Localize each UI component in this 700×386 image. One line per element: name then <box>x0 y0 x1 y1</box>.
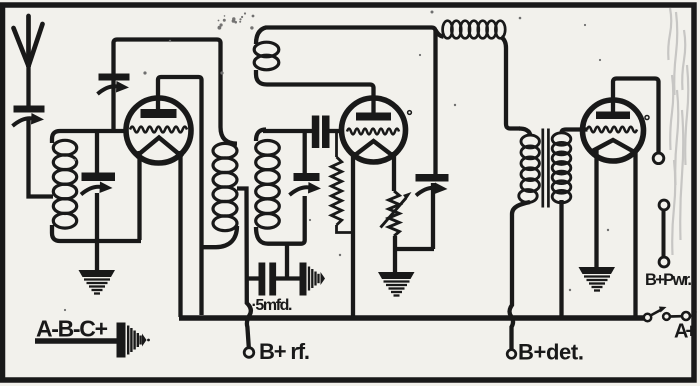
wire V3 left filament leg <box>594 149 598 267</box>
terminal B+Pwr top <box>659 200 669 210</box>
wire coilB bottom to C4 lead <box>285 244 289 279</box>
wire V1 plate to primary feed <box>158 77 202 315</box>
antenna <box>14 16 43 66</box>
wire secondary bottom to bus <box>559 200 563 317</box>
wire choke to transformer primary <box>501 37 520 129</box>
terminal B+Pwr bottom <box>659 257 669 267</box>
wire V2 plate to tickler <box>256 70 374 113</box>
hatched arrow to common <box>300 263 307 296</box>
wire grid lead tank top <box>52 131 127 143</box>
ground G3 <box>579 267 616 274</box>
wire rheostat to ground <box>393 236 397 272</box>
svg-text:A-B-C+: A-B-C+ <box>36 316 108 342</box>
wire tank bottom <box>52 225 141 241</box>
coil L1 <box>53 140 76 155</box>
tube V3 audio output <box>583 100 644 161</box>
svg-text:B+det.: B+det. <box>518 340 584 365</box>
wire L2 tap to B+rf <box>237 189 251 348</box>
switch S1 A+ <box>644 314 651 321</box>
svg-text:B+ rf.: B+ rf. <box>259 339 310 364</box>
transformer T1 core <box>541 129 544 208</box>
terminal output jack <box>653 153 664 164</box>
wire V1 left filament leg <box>137 151 141 240</box>
wire filament bus <box>179 315 644 321</box>
wire antenna to C1 <box>26 63 30 106</box>
wire C1 to coil L1 tap <box>29 120 54 197</box>
ground G2 <box>378 272 415 279</box>
ground G1 <box>79 270 116 277</box>
wire tickler to choke junction <box>256 28 436 175</box>
svg-text:A+: A+ <box>674 321 697 343</box>
capacitor C6 grid condenser <box>312 116 320 149</box>
wire L2 bottom to plate feed <box>202 226 238 247</box>
wire V2 left filament leg <box>351 152 355 317</box>
capacitor C4 bypass .5mfd <box>247 276 260 280</box>
coil L5 RF choke <box>443 21 453 39</box>
wire C2 bottom to ground <box>95 193 99 270</box>
tube V2 detector <box>342 98 406 162</box>
terminal B+rf <box>244 348 254 358</box>
scan artifact rings (decorative) <box>408 111 412 115</box>
capacitor C7 regeneration control <box>416 174 449 182</box>
capacitor C1 antenna series variable <box>14 106 45 113</box>
wire V3 right filament leg <box>633 149 637 317</box>
wire V1 right filament leg <box>178 151 182 317</box>
terminal B+det <box>507 350 516 359</box>
capacitor C5 tuning (across L3) <box>303 131 307 173</box>
coil L4 tickler <box>254 42 279 57</box>
coil L3 secondary <box>256 130 266 142</box>
svg-text:B+Pwr.: B+Pwr. <box>645 271 692 289</box>
scan smudges (decorative) <box>668 8 688 255</box>
coil L2 primary <box>213 143 237 158</box>
resistor R1 grid leak <box>335 133 338 157</box>
wire grid lead stage2 <box>263 129 312 133</box>
capacitor C2 tuning (across L1) <box>95 129 99 173</box>
wire B+Pwr link <box>662 210 666 257</box>
wire rheostat junction to C7 bottom <box>393 247 434 251</box>
wire C3 top to coil L2 top <box>114 40 238 144</box>
transformer T1 primary <box>519 129 531 136</box>
resistor R2 filament rheostat <box>389 191 400 236</box>
svg-text:·5mfd.: ·5mfd. <box>252 297 293 314</box>
transformer T1 secondary <box>552 133 571 145</box>
wire V3 plate to output terminal <box>613 79 659 154</box>
wire V2 right filament leg <box>392 152 396 191</box>
tube V1 RF amplifier <box>126 98 191 163</box>
capacitor C3 neutralizing <box>111 80 115 131</box>
